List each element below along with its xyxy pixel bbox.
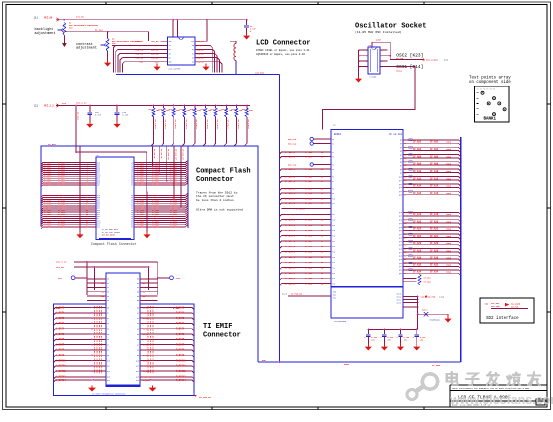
- svg-text:CF_A12: CF_A12: [430, 177, 439, 180]
- svg-text:V4: V4: [107, 296, 109, 298]
- svg-text:10K4: 10K4: [446, 221, 452, 224]
- svg-text:69: 69: [404, 151, 406, 153]
- svg-text:69: 69: [404, 187, 406, 189]
- svg-text:CF_A24: CF_A24: [413, 235, 422, 238]
- svg-text:G0: G0: [137, 279, 139, 281]
- svg-text:L_DAT11: L_DAT11: [56, 365, 66, 368]
- svg-text:69: 69: [404, 241, 406, 243]
- svg-text:CF_D09_B: CF_D09_B: [285, 192, 296, 195]
- svg-text:CF_A14: CF_A14: [413, 185, 422, 188]
- svg-text:CF_D02: CF_D02: [305, 151, 313, 154]
- svg-text:D2: D2: [107, 318, 109, 320]
- svg-text:D14: D14: [107, 380, 110, 382]
- svg-text:Q22: Q22: [399, 234, 402, 236]
- svg-text:R_DAT1: R_DAT1: [176, 312, 185, 315]
- svg-text:R_DAT0: R_DAT0: [176, 306, 185, 309]
- svg-text:P8: P8: [332, 188, 334, 190]
- svg-text:7: 7: [404, 278, 405, 280]
- svg-text:69: 69: [404, 162, 406, 164]
- svg-text:R_DAT12: R_DAT12: [176, 370, 186, 373]
- svg-text:SD_PWR: SD_PWR: [511, 306, 519, 309]
- svg-text:V2: V2: [107, 287, 109, 289]
- svg-text:7: 7: [404, 282, 405, 284]
- svg-text:CF_D13: CF_D13: [305, 219, 313, 222]
- svg-text:R_DAT11: R_DAT11: [176, 365, 186, 368]
- svg-text:TI EMIF: TI EMIF: [203, 323, 232, 331]
- svg-text:69: 69: [404, 245, 406, 247]
- svg-text:CF_A22: CF_A22: [413, 228, 422, 231]
- svg-text:CF_D14: CF_D14: [305, 224, 313, 227]
- svg-text:A11: A11: [136, 365, 139, 368]
- svg-text:P0: P0: [332, 139, 334, 141]
- svg-text:SYS_5V: SYS_5V: [76, 16, 85, 19]
- svg-text:D8: D8: [107, 350, 109, 352]
- svg-text:CF_D06: CF_D06: [305, 175, 313, 178]
- svg-text:R_DAT14: R_DAT14: [176, 379, 186, 382]
- svg-text:Q0: Q0: [400, 140, 402, 142]
- svg-text:CF_A20: CF_A20: [430, 221, 439, 224]
- svg-text:69: 69: [404, 256, 406, 258]
- svg-text:LCD_D2: LCD_D2: [197, 52, 205, 55]
- svg-text:69: 69: [404, 223, 406, 225]
- svg-text:P25: P25: [332, 283, 335, 285]
- svg-text:69: 69: [404, 237, 406, 239]
- svg-text:Connector: Connector: [196, 176, 234, 184]
- svg-text:10K4: 10K4: [446, 271, 452, 274]
- svg-text:Q29: Q29: [399, 259, 402, 261]
- svg-text:CF_D05_B: CF_D05_B: [285, 168, 296, 171]
- svg-text:VC5: VC5: [101, 300, 104, 302]
- svg-text:69: 69: [404, 234, 406, 236]
- svg-text:L_DAT14: L_DAT14: [56, 379, 66, 382]
- svg-text:CF_A26: CF_A26: [430, 242, 439, 245]
- svg-text:69: 69: [404, 184, 406, 186]
- svg-text:BANK1: BANK1: [334, 133, 342, 136]
- svg-text:OSC2 [K23]: OSC2 [K23]: [396, 53, 423, 59]
- svg-text:D13: D13: [107, 377, 110, 379]
- svg-text:CF_PUL1: CF_PUL1: [164, 120, 167, 130]
- svg-text:VCC_3.3V: VCC_3.3V: [76, 102, 87, 105]
- svg-text:G1: G1: [137, 283, 139, 285]
- svg-text:R_DAT9: R_DAT9: [176, 354, 185, 357]
- svg-text:the CF connector must: the CF connector must: [196, 194, 234, 198]
- svg-text:R0: R0: [169, 49, 171, 51]
- svg-text:CF_A30: CF_A30: [413, 257, 422, 260]
- svg-text:CF_D18: CF_D18: [305, 245, 313, 248]
- svg-text:L_DAT0: L_DAT0: [56, 306, 65, 309]
- svg-text:R_DAT2: R_DAT2: [176, 317, 185, 320]
- svg-text:D4: D4: [192, 62, 194, 64]
- svg-text:(11.05 MHz OSC Installed): (11.05 MHz OSC Installed): [355, 30, 402, 34]
- svg-text:CF_D10_B: CF_D10_B: [285, 197, 296, 200]
- svg-text:69: 69: [404, 158, 406, 160]
- svg-text:adjustment: adjustment: [35, 31, 56, 36]
- svg-text:69: 69: [404, 227, 406, 229]
- svg-text:Ultra DMA is not supported: Ultra DMA is not supported: [196, 208, 243, 212]
- svg-text:D5: D5: [107, 334, 109, 336]
- svg-text:CF_D08_B: CF_D08_B: [285, 187, 296, 190]
- svg-text:69: 69: [404, 266, 406, 268]
- svg-text:G2: G2: [137, 287, 139, 289]
- svg-text:69: 69: [404, 180, 406, 182]
- svg-text:GND: GND: [169, 62, 172, 64]
- svg-text:EM_A2 EM_D2 X2 EM_A2 EM_D2 Y2: EM_A2 EM_D2 X2 EM_A2 EM_D2 Y2 EM_A2 EM_D…: [151, 306, 154, 374]
- svg-text:R_DAT10: R_DAT10: [176, 359, 186, 362]
- svg-text:CF_D25: CF_D25: [305, 282, 313, 285]
- svg-text:G3: G3: [137, 292, 139, 294]
- svg-text:3: 3: [366, 61, 367, 63]
- svg-text:CF_D14_B: CF_D14_B: [285, 224, 296, 227]
- svg-text:CTX406: CTX406: [370, 76, 378, 79]
- svg-text:MMC_CLK: MMC_CLK: [288, 163, 297, 166]
- svg-text:CF_PUL3: CF_PUL3: [185, 120, 188, 130]
- svg-text:Q3: Q3: [400, 151, 402, 153]
- svg-text:D6: D6: [107, 339, 109, 341]
- svg-text:A2: A2: [137, 317, 139, 320]
- svg-text:NC_CD1 REG2 WAIT: NC_CD1 REG2 WAIT: [102, 228, 118, 231]
- svg-text:CF_A27: CF_A27: [152, 226, 160, 229]
- svg-text:D1: D1: [107, 313, 109, 315]
- svg-text:CF_D23_B: CF_D23_B: [285, 272, 296, 275]
- svg-text:V3: V3: [107, 292, 109, 294]
- svg-text:P12: P12: [332, 214, 335, 216]
- svg-text:CF_D09: CF_D09: [305, 192, 313, 195]
- svg-text:V5: V5: [107, 300, 109, 302]
- svg-text:TPS2041BDR: TPS2041BDR: [334, 320, 347, 323]
- svg-text:CF_D13_B: CF_D13_B: [285, 219, 296, 222]
- svg-text:A10: A10: [136, 359, 139, 362]
- svg-text:LCD_D1: LCD_D1: [197, 48, 205, 51]
- svg-text:P13: P13: [332, 220, 335, 222]
- svg-text:Q21: Q21: [399, 230, 402, 232]
- svg-text:Q14: Q14: [399, 191, 402, 193]
- svg-text:P24: P24: [332, 278, 335, 280]
- svg-text:CF_D08: CF_D08: [305, 187, 313, 190]
- svg-text:CF_BUS: CF_BUS: [48, 143, 57, 146]
- svg-text:Q8: Q8: [400, 169, 402, 171]
- svg-text:TI EMIF Peripheral Connector: TI EMIF Peripheral Connector: [92, 393, 126, 396]
- svg-text:VCC_5V: VCC_5V: [44, 17, 53, 20]
- svg-text:Q11: Q11: [399, 180, 402, 182]
- svg-text:VO: VO: [169, 45, 171, 47]
- svg-text:CF_VS1: CF_VS1: [76, 112, 79, 121]
- svg-text:CF_PUL6: CF_PUL6: [216, 120, 219, 130]
- svg-text:L_DAT12: L_DAT12: [56, 370, 66, 373]
- svg-text:CF_A02: CF_A02: [430, 141, 439, 144]
- svg-text:69: 69: [404, 216, 406, 218]
- svg-text:XTAL2: XTAL2: [396, 69, 403, 72]
- svg-text:CF_A16: CF_A16: [413, 192, 422, 195]
- svg-text:LCD_BL: LCD_BL: [136, 40, 144, 43]
- svg-text:P17: P17: [332, 241, 335, 243]
- svg-text:CF_PUL4: CF_PUL4: [195, 120, 198, 130]
- svg-text:69: 69: [404, 195, 406, 197]
- svg-text:D3: D3: [192, 57, 194, 59]
- svg-text:CF_D12 CF: CF_D12 CF: [181, 149, 184, 161]
- svg-text:CF_A16: CF_A16: [430, 192, 439, 195]
- svg-text:P3: P3: [332, 156, 334, 158]
- svg-text:(8): (8): [485, 302, 489, 305]
- svg-text:6: 6: [381, 61, 382, 63]
- svg-text:BANK1: BANK1: [484, 118, 497, 122]
- svg-text:R_DAT6: R_DAT6: [176, 338, 185, 341]
- svg-text:CF_A12: CF_A12: [413, 177, 422, 180]
- svg-text:DGND: DGND: [344, 363, 350, 366]
- svg-text:Texas Instruments Inc OMAP5: Texas Instruments Inc OMAP5912 LCD CF EM…: [452, 387, 530, 390]
- svg-text:LCD_D3: LCD_D3: [197, 57, 205, 60]
- svg-text:470R: 470R: [376, 39, 382, 42]
- svg-text:L_DAT4: L_DAT4: [56, 328, 65, 331]
- svg-text:LCD_D4: LCD_D4: [197, 61, 205, 64]
- svg-text:LCD_BL: LCD_BL: [151, 40, 159, 43]
- svg-text:CF_D02_B: CF_D02_B: [285, 151, 296, 154]
- svg-text:7: 7: [381, 56, 382, 58]
- svg-text:1: 1: [366, 50, 367, 52]
- svg-text:VDD: VDD: [169, 41, 172, 43]
- svg-text:CF_A32: CF_A32: [413, 264, 422, 267]
- svg-text:A13: A13: [136, 376, 139, 379]
- svg-text:Q15: Q15: [399, 195, 402, 197]
- svg-text:D12: D12: [97, 227, 100, 229]
- svg-text:A07: A07: [97, 184, 100, 187]
- svg-text:CF_D16_B: CF_D16_B: [285, 235, 296, 238]
- svg-text:CF_D11: CF_D11: [305, 202, 313, 205]
- svg-text:V1: V1: [107, 283, 109, 285]
- svg-text:10K4: 10K4: [446, 148, 452, 151]
- svg-text:69: 69: [404, 263, 406, 265]
- svg-text:PWR_X: PWR_X: [422, 309, 429, 312]
- svg-text:CF_D27: CF_D27: [44, 226, 52, 229]
- svg-text:CF_A18: CF_A18: [430, 213, 439, 216]
- svg-text:53: 53: [131, 227, 133, 229]
- svg-text:69: 69: [404, 252, 406, 254]
- svg-text:CF_D23: CF_D23: [305, 272, 313, 275]
- svg-text:CF_GND: CF_GND: [432, 364, 441, 367]
- svg-text:10K4: 10K4: [446, 235, 452, 238]
- svg-text:SD1_CMD: SD1_CMD: [491, 305, 500, 308]
- svg-text:CF_PUL2: CF_PUL2: [174, 120, 177, 130]
- svg-text:L_DAT8: L_DAT8: [56, 349, 65, 352]
- svg-text:CF_A34: CF_A34: [430, 271, 439, 274]
- svg-text:69: 69: [404, 140, 406, 142]
- svg-text:CF_D16: CF_D16: [305, 235, 313, 238]
- svg-text:Q31: Q31: [399, 266, 402, 268]
- svg-text:(12): (12): [282, 293, 287, 296]
- svg-text:28: 28: [86, 227, 88, 229]
- svg-text:Compact Flash Connector: Compact Flash Connector: [91, 242, 137, 246]
- svg-text:Q25: Q25: [399, 245, 402, 247]
- svg-text:4: 4: [366, 66, 367, 68]
- svg-text:CF_D9 CF: CF_D9 CF: [160, 149, 163, 159]
- svg-text:R_DAT4: R_DAT4: [176, 328, 185, 331]
- svg-text:D1: D1: [192, 49, 194, 51]
- svg-text:Q23: Q23: [399, 237, 402, 239]
- svg-text:10K4: 10K4: [446, 170, 452, 173]
- svg-text:CF_D12_B: CF_D12_B: [285, 213, 296, 216]
- svg-text:(2): (2): [34, 103, 39, 107]
- svg-text:Q18: Q18: [399, 220, 402, 222]
- svg-text:OUT0: OUT0: [397, 293, 401, 295]
- svg-text:PW3: PW3: [142, 292, 145, 294]
- svg-text:LCD_BUS: LCD_BUS: [255, 72, 265, 75]
- svg-text:Q4: Q4: [400, 155, 402, 157]
- svg-text:EM_A13: EM_A13: [143, 376, 149, 379]
- svg-text:CF_D11: CF_D11: [44, 184, 52, 187]
- svg-text:VCC_3.3: VCC_3.3: [44, 104, 54, 107]
- svg-text:Q27: Q27: [399, 252, 402, 254]
- svg-text:CF_D20: CF_D20: [305, 256, 313, 259]
- svg-text:Q33: Q33: [399, 273, 402, 275]
- svg-text:VC3: VC3: [101, 292, 104, 294]
- svg-text:VCC_5V: VCC_5V: [197, 40, 205, 43]
- svg-text:P11: P11: [332, 203, 335, 205]
- svg-text:P10: P10: [332, 198, 335, 200]
- svg-text:10K4: 10K4: [446, 228, 452, 231]
- svg-text:CF_D21_B: CF_D21_B: [285, 261, 296, 264]
- svg-text:SD2 interface: SD2 interface: [486, 316, 519, 321]
- svg-text:VCC_5V: VCC_5V: [56, 266, 65, 269]
- svg-text:G0: G0: [169, 53, 171, 55]
- svg-text:R_DAT3: R_DAT3: [176, 322, 185, 325]
- svg-text:G5: G5: [137, 300, 139, 302]
- svg-text:EN1: EN1: [333, 295, 336, 297]
- svg-text:D2: D2: [192, 53, 194, 55]
- svg-text:8: 8: [381, 50, 382, 52]
- svg-text:69: 69: [404, 165, 406, 167]
- svg-text:10K4: 10K4: [446, 192, 452, 195]
- svg-text:Q13: Q13: [399, 187, 402, 189]
- svg-text:Test points array: Test points array: [469, 76, 511, 81]
- svg-text:CF_A10: CF_A10: [430, 170, 439, 173]
- svg-text:CF_A06: CF_A06: [430, 155, 439, 158]
- svg-text:Q20: Q20: [399, 227, 402, 229]
- svg-text:LCD Connector: LCD Connector: [256, 40, 311, 48]
- svg-text:CF_PUL8: CF_PUL8: [237, 120, 240, 130]
- svg-text:Q17: Q17: [399, 216, 402, 218]
- svg-text:A4: A4: [137, 328, 139, 331]
- svg-text:CF_D11 CF: CF_D11 CF: [174, 149, 177, 161]
- svg-text:PW0: PW0: [142, 279, 145, 281]
- svg-text:CF_A34: CF_A34: [413, 271, 422, 274]
- svg-text:P2: P2: [332, 152, 334, 154]
- svg-text:CF_D07: CF_D07: [305, 180, 313, 183]
- svg-text:Q7: Q7: [400, 165, 402, 167]
- svg-text:CF od 101: CF od 101: [389, 133, 402, 136]
- svg-text:NC_CD2 CSEL INPACK: NC_CD2 CSEL INPACK: [102, 231, 121, 234]
- svg-text:(11): (11): [439, 295, 444, 298]
- svg-text:R_DAT5: R_DAT5: [176, 333, 185, 336]
- svg-text:10K4: 10K4: [446, 249, 452, 252]
- svg-text:69: 69: [404, 176, 406, 178]
- svg-text:10K4: 10K4: [446, 264, 452, 267]
- svg-text:VC1: VC1: [101, 283, 104, 285]
- svg-text:CF_D27: CF_D27: [58, 226, 66, 229]
- svg-text:CF_D21: CF_D21: [305, 261, 313, 264]
- svg-text:OUT2: OUT2: [397, 299, 401, 301]
- svg-text:L_DAT3: L_DAT3: [56, 322, 65, 325]
- svg-text:CF_PUL9: CF_PUL9: [247, 120, 250, 130]
- svg-text:L_DAT6: L_DAT6: [56, 338, 65, 341]
- svg-text:69: 69: [404, 147, 406, 149]
- svg-text:2: 2: [366, 56, 367, 58]
- svg-text:CF_CD1: CF_CD1: [424, 277, 432, 280]
- svg-text:L_DAT9: L_DAT9: [56, 354, 65, 357]
- svg-text:Compact Flash: Compact Flash: [196, 168, 251, 176]
- svg-text:CF_A10: CF_A10: [413, 170, 422, 173]
- svg-text:Connector: Connector: [203, 331, 241, 339]
- svg-text:10K4: 10K4: [446, 155, 452, 158]
- svg-text:Q19: Q19: [399, 223, 402, 225]
- svg-text:P15: P15: [332, 230, 335, 232]
- svg-text:A5: A5: [137, 333, 139, 336]
- svg-text:CF_A30: CF_A30: [430, 257, 439, 260]
- svg-text:D11: D11: [107, 366, 110, 368]
- svg-text:RES ADJUSTABLE PRECISION: RES ADJUSTABLE PRECISION: [69, 24, 99, 27]
- svg-text:A0: A0: [137, 306, 139, 309]
- svg-text:A14: A14: [136, 379, 139, 382]
- svg-text:A8: A8: [137, 349, 139, 352]
- svg-text:Q28: Q28: [399, 256, 402, 258]
- svg-text:P22: P22: [332, 268, 335, 270]
- svg-text:D12: D12: [107, 371, 110, 373]
- svg-text:PW1: PW1: [142, 283, 145, 285]
- svg-text:P18: P18: [332, 246, 335, 248]
- svg-text:MMC_CLK: MMC_CLK: [288, 138, 297, 141]
- svg-text:5: 5: [381, 66, 382, 68]
- svg-text:69: 69: [404, 248, 406, 250]
- svg-text:CF_D25_B: CF_D25_B: [285, 282, 296, 285]
- svg-text:D7: D7: [107, 344, 109, 346]
- svg-text:Q5: Q5: [400, 158, 402, 160]
- svg-text:RDY_BSY RESET: RDY_BSY RESET: [102, 235, 115, 237]
- svg-text:L_DAT10: L_DAT10: [56, 359, 66, 362]
- svg-text:10K4: 10K4: [446, 213, 452, 216]
- svg-text:CF_D24_B: CF_D24_B: [285, 277, 296, 280]
- svg-text:CF_A24: CF_A24: [430, 235, 439, 238]
- svg-text:CF_A11: CF_A11: [152, 184, 160, 187]
- svg-text:CF_D22: CF_D22: [305, 267, 313, 270]
- svg-text:CF_D22_B: CF_D22_B: [285, 267, 296, 270]
- svg-text:CF_A26: CF_A26: [413, 242, 422, 245]
- svg-text:69: 69: [404, 155, 406, 157]
- svg-text:PW2: PW2: [142, 287, 145, 289]
- svg-text:P23: P23: [332, 273, 335, 275]
- svg-text:on component side: on component side: [469, 80, 511, 85]
- svg-text:T1 T2 T3 T4 T5 T6: T1 T2 T3 T4 T5 T6: [477, 88, 495, 90]
- svg-text:10K4: 10K4: [446, 141, 452, 144]
- svg-text:P4: P4: [332, 164, 334, 166]
- svg-text:BL_ADJ: BL_ADJ: [95, 29, 104, 32]
- svg-text:Q6: Q6: [400, 162, 402, 164]
- svg-text:OUT3: OUT3: [397, 302, 401, 304]
- svg-text:0.1uF: 0.1uF: [122, 114, 129, 117]
- svg-text:CF_D17_B: CF_D17_B: [285, 240, 296, 243]
- svg-text:GTSHC 131EL or Equiv, use pins: GTSHC 131EL or Equiv, use pins 1-31: [256, 48, 310, 52]
- svg-text:CF_D03: CF_D03: [305, 155, 313, 158]
- svg-text:adjustment: adjustment: [76, 45, 97, 50]
- svg-text:CF_A22: CF_A22: [430, 228, 439, 231]
- svg-text:CF_A14: CF_A14: [430, 185, 439, 188]
- svg-text:A9: A9: [137, 354, 139, 357]
- svg-text:P21: P21: [332, 262, 335, 264]
- svg-text:MMC_CLK: MMC_CLK: [288, 142, 297, 145]
- svg-text:CF: CF: [97, 154, 99, 157]
- svg-text:Q9: Q9: [400, 172, 402, 174]
- svg-text:CF_D15: CF_D15: [305, 229, 313, 232]
- svg-text:69: 69: [404, 259, 406, 261]
- svg-text:10K4: 10K4: [446, 177, 452, 180]
- svg-text:CF_D15_B: CF_D15_B: [285, 229, 296, 232]
